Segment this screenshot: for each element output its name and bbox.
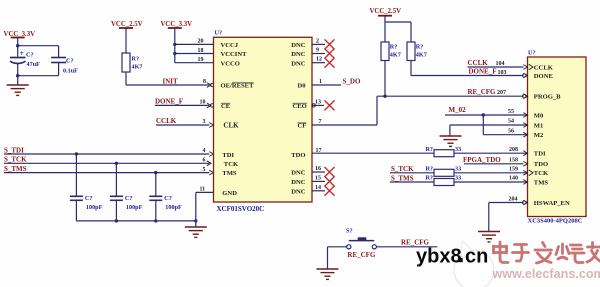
svg-text:4K7: 4K7 [132,64,143,71]
svg-text:47uF: 47uF [27,61,41,68]
svg-text:2: 2 [316,38,319,44]
svg-text:DONE: DONE [534,73,554,80]
svg-text:HSWAP_EN: HSWAP_EN [534,200,570,207]
svg-text:S?: S? [346,228,353,235]
svg-text:VCC_2.5V: VCC_2.5V [111,21,143,28]
svg-text:CEO: CEO [293,103,307,110]
svg-text:19: 19 [198,57,204,63]
svg-text:DNC: DNC [291,188,306,195]
svg-text:U?: U? [215,29,223,36]
svg-text:TMS: TMS [534,179,549,186]
svg-text:S_TCK: S_TCK [391,165,414,173]
svg-text:XCF01SVO20C: XCF01SVO20C [217,205,265,213]
svg-text:DNC: DNC [291,51,306,58]
svg-text:3: 3 [203,119,206,125]
svg-text:OE/RESET: OE/RESET [221,83,255,90]
svg-text:DONE_F: DONE_F [155,97,183,105]
svg-text:100pF: 100pF [86,204,103,211]
svg-text:INIT: INIT [163,77,179,85]
svg-text:DNC: DNC [291,60,306,67]
svg-text:VCCINT: VCCINT [221,51,248,58]
svg-text:9: 9 [316,48,319,54]
svg-text:DNC: DNC [291,170,306,177]
svg-text:C?: C? [26,52,34,59]
svg-text:CE: CE [221,103,231,110]
svg-text:5: 5 [203,167,206,173]
svg-text:GND: GND [222,190,237,197]
svg-text:S_TMS: S_TMS [4,165,27,173]
svg-text:TDI: TDI [534,151,546,158]
svg-text:14: 14 [315,185,321,191]
svg-text:cn: cn [465,246,488,268]
svg-text:159: 159 [509,167,518,173]
svg-text:ybx8: ybx8 [416,246,462,268]
svg-text:C?: C? [66,58,74,65]
svg-text:140: 140 [509,176,518,182]
svg-text:S_TDI: S_TDI [4,146,24,154]
svg-text:C?: C? [125,195,133,202]
svg-text:10: 10 [200,99,206,105]
svg-text:DNC: DNC [291,179,306,186]
svg-text:33: 33 [455,146,461,153]
svg-text:www.elecfans.com: www.elecfans.com [492,267,600,281]
svg-text:U?: U? [528,49,536,56]
svg-text:R?: R? [425,175,433,182]
svg-text:TDO: TDO [291,152,305,159]
svg-text:TCK: TCK [534,170,549,177]
svg-text:R?: R? [390,44,398,51]
svg-text:M0: M0 [534,112,544,119]
svg-text:7: 7 [319,119,322,125]
svg-text:18: 18 [198,48,204,54]
svg-text:207: 207 [497,90,506,96]
svg-text:CF: CF [298,123,307,130]
svg-text:33: 33 [455,165,461,172]
svg-text:4: 4 [203,148,206,154]
svg-text:158: 158 [509,157,518,163]
svg-text:16: 16 [315,166,321,172]
svg-text:CLK: CLK [223,122,239,130]
svg-text:CCLK: CCLK [534,64,554,71]
svg-text:VCCJ: VCCJ [221,42,239,49]
svg-text:TCK: TCK [224,161,239,168]
svg-text:100pF: 100pF [126,204,143,211]
svg-text:4K7: 4K7 [416,52,427,59]
svg-text:208: 208 [509,147,518,153]
svg-text:M2: M2 [534,132,544,139]
svg-text:55: 55 [508,109,514,115]
svg-text:6: 6 [203,158,206,164]
svg-text:RE_CFG: RE_CFG [468,88,497,96]
svg-text:PROG_B: PROG_B [534,94,561,101]
svg-text:4K7: 4K7 [390,52,401,59]
svg-text:DNC: DNC [291,42,306,49]
svg-text:XC3S400-4PQ208C: XC3S400-4PQ208C [528,217,583,224]
svg-text:S_DO: S_DO [343,78,361,86]
svg-text:8: 8 [203,79,206,85]
svg-text:RE_CFG: RE_CFG [347,251,376,259]
svg-text:VCC_3.3V: VCC_3.3V [161,21,193,28]
svg-text:R?: R? [416,44,424,51]
svg-text:VCCO: VCCO [221,60,240,67]
svg-text:12: 12 [316,57,322,63]
svg-text:DONE_F: DONE_F [469,68,497,76]
svg-text:CCLK: CCLK [156,117,177,125]
svg-text:33: 33 [455,175,461,182]
svg-text:13: 13 [315,99,321,105]
svg-text:20: 20 [198,39,204,45]
svg-text:104: 104 [496,61,505,67]
svg-text:C?: C? [164,195,172,202]
svg-text:100pF: 100pF [165,204,182,211]
svg-text:TDO: TDO [534,161,548,168]
svg-text:11: 11 [200,186,206,192]
svg-text:15: 15 [315,175,321,181]
svg-text:R?: R? [132,56,140,63]
svg-text:TDI: TDI [222,152,234,159]
svg-text:S_TCK: S_TCK [4,156,27,164]
svg-text:D0: D0 [297,83,306,90]
svg-text:R?: R? [425,146,433,153]
svg-text:S_TMS: S_TMS [391,174,414,182]
svg-text:C?: C? [85,195,93,202]
svg-text:204: 204 [509,197,518,203]
svg-text:FPGA_TDO: FPGA_TDO [463,156,501,164]
svg-text:0.1uF: 0.1uF [63,68,78,75]
svg-text:TMS: TMS [222,170,237,177]
svg-text:1: 1 [319,79,322,85]
svg-text:103: 103 [498,70,507,76]
svg-text:56: 56 [508,128,514,134]
svg-text:M_02: M_02 [449,106,467,114]
svg-text:R?: R? [425,165,433,172]
svg-text:VCC_2.5V: VCC_2.5V [370,8,402,15]
svg-text:M1: M1 [534,122,544,129]
svg-text:CCLK: CCLK [468,59,489,67]
svg-text:54: 54 [508,119,514,125]
